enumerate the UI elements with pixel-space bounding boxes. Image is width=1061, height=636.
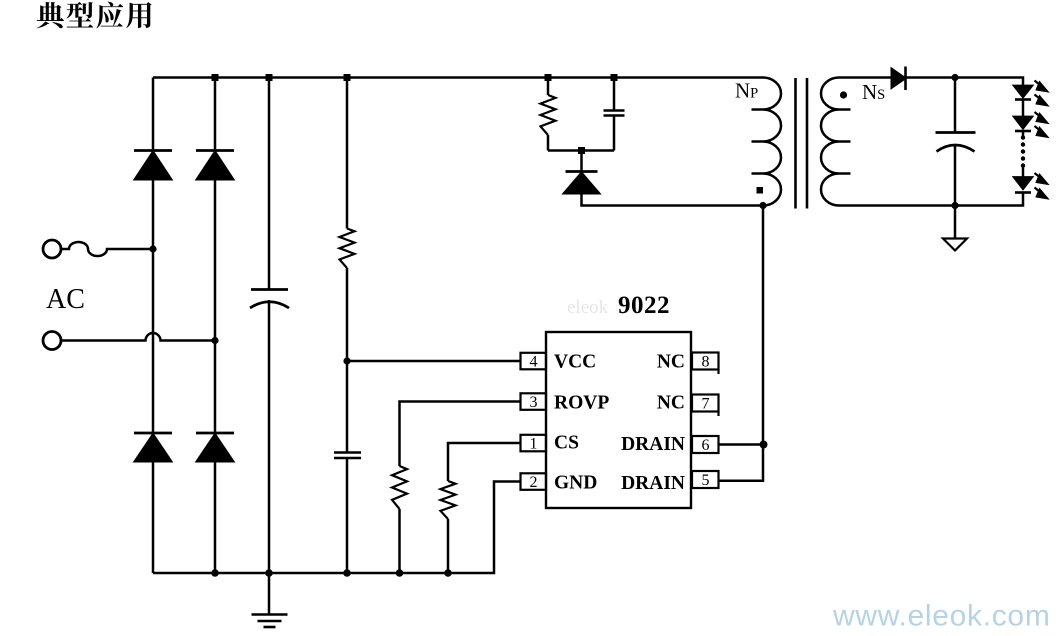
svg-text:6: 6 <box>702 437 710 454</box>
svg-text:8: 8 <box>702 354 710 371</box>
svg-text:DRAIN: DRAIN <box>621 434 685 455</box>
svg-text:5: 5 <box>702 472 710 489</box>
svg-text:2: 2 <box>530 474 538 491</box>
svg-text:www.eleok.com: www.eleok.com <box>832 600 1051 633</box>
svg-text:VCC: VCC <box>554 352 596 373</box>
svg-text:NP: NP <box>735 79 758 103</box>
svg-text:NC: NC <box>657 393 685 414</box>
svg-text:3: 3 <box>530 394 538 411</box>
svg-text:NC: NC <box>657 352 685 373</box>
svg-text:4: 4 <box>530 354 538 371</box>
svg-text:GND: GND <box>554 473 597 494</box>
svg-text:9022: 9022 <box>618 292 670 319</box>
svg-text:1: 1 <box>530 436 538 453</box>
svg-text:7: 7 <box>702 396 710 413</box>
svg-text:AC: AC <box>46 284 85 315</box>
svg-text:CS: CS <box>554 433 579 454</box>
svg-text:NS: NS <box>862 80 885 104</box>
svg-text:eleok: eleok <box>567 297 609 318</box>
svg-text:DRAIN: DRAIN <box>621 473 685 494</box>
svg-text:ROVP: ROVP <box>554 393 609 414</box>
